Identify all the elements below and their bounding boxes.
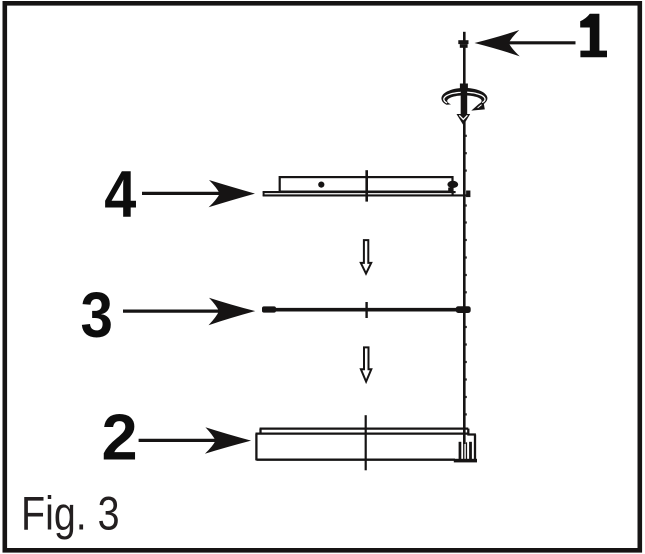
svg-text:2: 2 [102,401,138,474]
arrow to canopy 2 [139,427,252,454]
label 1 [580,14,607,57]
label 2 [102,401,138,474]
bold down arrow on rod [457,84,471,126]
hollow down arrow lower [361,347,371,381]
arrow to crossbar 3 [123,298,255,326]
svg-text:Fig. 3: Fig. 3 [21,488,120,540]
caption Fig. 3 [21,488,120,540]
label 3 [80,279,112,351]
hanger rod wire [464,48,467,445]
label 4 [104,158,137,231]
crossbar 3 [262,302,471,318]
arrow to bracket 4 [142,180,255,207]
hollow down arrow upper [361,240,371,274]
svg-text:3: 3 [80,279,112,351]
canopy base 2 [256,415,478,470]
arrow to screw 1 [475,30,576,56]
screw 1 [458,32,468,48]
mounting bracket 4 [263,170,471,201]
rotation arrow around rod [441,88,487,111]
svg-text:4: 4 [104,158,137,231]
